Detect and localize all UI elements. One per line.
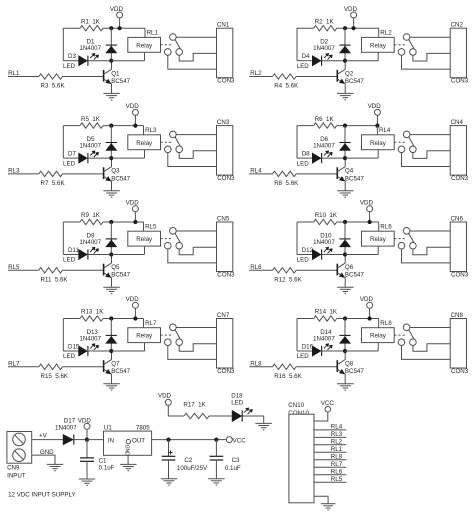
svg-text:RL7: RL7	[145, 320, 157, 327]
wire top rail	[63, 318, 80, 320]
svg-text:RL2: RL2	[331, 439, 343, 446]
svg-text:R3 5.6K: R3 5.6K	[41, 83, 66, 90]
relay coil RL1	[128, 37, 161, 52]
svg-text:1N4007: 1N4007	[313, 239, 335, 246]
svg-text:Relay: Relay	[136, 42, 153, 49]
svg-text:12 VDC INPUT SUPPLY: 12 VDC INPUT SUPPLY	[8, 492, 76, 499]
relay contact NC	[165, 339, 172, 346]
svg-text:D12: D12	[302, 247, 314, 254]
resistor R4 5.6K	[273, 74, 297, 79]
svg-text:LED: LED	[231, 399, 244, 406]
svg-text:Q8: Q8	[345, 361, 354, 368]
svg-text:100uF/25V: 100uF/25V	[177, 465, 208, 472]
node VCC output	[226, 437, 232, 443]
svg-text:BC547: BC547	[111, 272, 130, 279]
svg-text:R11 5.6K: R11 5.6K	[41, 277, 69, 284]
wire common to connector	[176, 327, 216, 329]
svg-text:RL5: RL5	[331, 476, 343, 483]
wire NC to connector	[168, 249, 217, 263]
resistor R10 1K	[314, 219, 337, 224]
svg-text:1N4007: 1N4007	[313, 45, 335, 52]
wire NO to connector	[179, 344, 216, 352]
relay contacts common	[170, 324, 177, 331]
ground	[103, 286, 120, 288]
wire NO to connector	[179, 151, 216, 159]
node RL7 pin wire	[314, 466, 346, 468]
svg-text:1N4007: 1N4007	[313, 335, 335, 342]
wire common to connector	[410, 327, 450, 329]
relay coil RL4	[362, 135, 395, 150]
svg-text:D3: D3	[68, 53, 76, 60]
svg-text:R15 5.6K: R15 5.6K	[41, 373, 69, 380]
svg-text:CON3: CON3	[451, 78, 469, 85]
junction VDD tap	[375, 124, 379, 128]
svg-text:C3: C3	[232, 457, 240, 464]
svg-text:IN: IN	[108, 438, 114, 445]
wire relay feed	[378, 319, 380, 328]
svg-text:1N4007: 1N4007	[79, 45, 101, 52]
contact blade	[409, 330, 414, 339]
svg-text:0.1uF: 0.1uF	[225, 465, 241, 472]
svg-text:Q2: Q2	[345, 70, 354, 77]
svg-text:LED: LED	[63, 160, 76, 167]
svg-text:LED: LED	[63, 353, 76, 360]
junction VDD tap	[133, 220, 137, 224]
relay contact NC	[165, 146, 172, 153]
resistor R5 1K	[80, 123, 103, 128]
resistor R7 5.6K	[39, 171, 63, 176]
LED D16	[297, 350, 312, 352]
relay coil RL8	[362, 328, 395, 343]
resistor R6 1K	[314, 123, 337, 128]
svg-text:RL8: RL8	[331, 454, 343, 461]
ground	[208, 478, 225, 480]
wire NO to connector	[413, 344, 450, 352]
junction diode branch	[343, 220, 347, 224]
wire NC to connector	[402, 249, 451, 263]
svg-text:R2 1K: R2 1K	[315, 18, 335, 25]
svg-text:VCC: VCC	[233, 438, 247, 445]
svg-text:D17: D17	[64, 418, 76, 425]
resistor R13 1K	[80, 316, 103, 321]
svg-text:R16 5.6K: R16 5.6K	[274, 373, 302, 380]
svg-text:OUT: OUT	[132, 438, 145, 445]
svg-text:Relay: Relay	[136, 236, 153, 243]
svg-text:R6 1K: R6 1K	[315, 116, 335, 123]
svg-text:D15: D15	[68, 343, 80, 350]
svg-text:CN6: CN6	[451, 216, 464, 223]
svg-text:1N4007: 1N4007	[79, 335, 101, 342]
node RL6 pin wire	[314, 474, 346, 476]
svg-text:D11: D11	[68, 247, 79, 254]
LED D3	[63, 60, 78, 62]
resistor R11 5.6K	[39, 268, 63, 273]
ground	[337, 383, 354, 385]
svg-text:CN10: CN10	[288, 402, 304, 409]
svg-text:CON3: CON3	[217, 271, 235, 278]
wire NO to connector	[413, 151, 450, 159]
relay actuation dashed link	[394, 44, 405, 46]
svg-text:LED: LED	[297, 257, 310, 264]
svg-text:GND: GND	[124, 445, 130, 457]
svg-text:BC547: BC547	[111, 175, 130, 182]
wire common to connector	[410, 36, 450, 38]
junction diode branch	[343, 316, 347, 320]
wire NO to connector	[413, 53, 450, 61]
ground	[79, 478, 95, 480]
svg-text:R9 1K: R9 1K	[81, 212, 101, 219]
svg-text:CON3: CON3	[217, 175, 235, 182]
node RL5 pin wire	[314, 481, 346, 483]
wire NC to connector	[402, 346, 451, 360]
svg-text:Q3: Q3	[111, 168, 120, 175]
svg-text:RL1: RL1	[147, 30, 159, 37]
diode D2 1N4007 flyback	[344, 28, 346, 61]
relay actuation dashed link	[394, 238, 405, 240]
svg-text:VDD: VDD	[126, 200, 140, 207]
svg-text:VDD: VDD	[78, 418, 92, 425]
svg-text:RL5: RL5	[145, 223, 157, 230]
relay contact NO	[176, 146, 183, 153]
svg-text:RL6: RL6	[380, 223, 392, 230]
wire VCC rail	[152, 439, 227, 441]
wire common to connector	[176, 134, 216, 136]
relay contact NO	[410, 339, 417, 346]
svg-text:7805: 7805	[136, 425, 150, 432]
relay contact NC	[398, 146, 405, 153]
svg-text:VDD: VDD	[368, 103, 382, 110]
svg-text:RL4: RL4	[379, 127, 391, 134]
wire CN10 ground	[314, 496, 328, 503]
transistor Q4 BC547	[336, 167, 338, 179]
ground	[103, 383, 120, 385]
diode D14 1N4007 flyback	[344, 319, 346, 352]
ground	[120, 463, 137, 465]
svg-text:VDD: VDD	[126, 296, 140, 303]
resistor R8 5.6K	[273, 171, 297, 176]
svg-text:Q6: Q6	[345, 264, 354, 271]
svg-text:LED: LED	[63, 257, 76, 264]
wire base	[62, 269, 104, 271]
transistor Q1 BC547	[103, 70, 105, 82]
wire NO to connector	[413, 247, 450, 255]
wire relay bottom	[144, 150, 146, 158]
svg-text:Q5: Q5	[111, 264, 120, 271]
relay contacts common	[403, 324, 410, 331]
svg-text:BC547: BC547	[111, 368, 130, 375]
svg-text:VDD: VDD	[344, 6, 358, 13]
relay contact NO	[410, 242, 417, 249]
transistor Q8 BC547	[336, 360, 338, 372]
wire left rail	[62, 126, 64, 159]
connector CN9 screw terminal	[7, 432, 32, 464]
contact blade	[175, 40, 180, 49]
transistor Q6 BC547	[336, 264, 338, 276]
wire NC to connector	[402, 153, 451, 167]
resistor R12 5.6K	[273, 268, 297, 273]
node RL1 pin wire	[314, 451, 346, 453]
svg-text:R7 5.6K: R7 5.6K	[41, 180, 66, 187]
svg-text:R1 1K: R1 1K	[81, 18, 101, 25]
wire relay bottom	[144, 343, 146, 351]
svg-text:1N4007: 1N4007	[79, 239, 101, 246]
node RL3 pin wire	[314, 436, 346, 438]
ground	[337, 190, 354, 192]
wire base	[62, 76, 104, 78]
wire common to connector	[176, 36, 216, 38]
junction VDD tap	[368, 316, 372, 320]
transistor Q2 BC547	[336, 70, 338, 82]
relay contact NC	[398, 242, 405, 249]
svg-text:INPUT: INPUT	[7, 473, 26, 480]
junction	[166, 438, 170, 442]
relay contact NO	[176, 339, 183, 346]
relay actuation dashed link	[161, 44, 172, 46]
relay contacts common	[403, 228, 410, 235]
junction diode branch	[109, 316, 113, 320]
resistor R16 5.6K	[273, 364, 297, 369]
svg-text:VCC: VCC	[321, 400, 335, 407]
wire U1 ground pin	[127, 455, 129, 464]
svg-text:Q1: Q1	[111, 70, 120, 77]
junction diode branch	[109, 26, 113, 30]
svg-text:CN8: CN8	[451, 312, 464, 319]
svg-text:RL3: RL3	[331, 431, 343, 438]
svg-text:C2: C2	[184, 457, 192, 464]
wire common to connector	[176, 230, 216, 232]
diode D9 1N4007 flyback	[110, 222, 112, 255]
relay contacts common	[403, 34, 410, 41]
wire relay bottom	[377, 150, 379, 158]
svg-text:RL4: RL4	[331, 424, 343, 431]
ground	[103, 92, 120, 94]
svg-text:R14 1K: R14 1K	[315, 309, 338, 316]
capacitor C3 0.1uF	[215, 440, 217, 457]
svg-text:Relay: Relay	[136, 333, 153, 340]
svg-text:D16: D16	[302, 343, 314, 350]
capacitor C1 0.1uF	[86, 440, 88, 458]
wire relay feed	[376, 126, 378, 135]
wire relay feed	[378, 28, 380, 37]
LED D12	[297, 254, 312, 256]
resistor R1 1K	[80, 26, 103, 31]
ground	[103, 190, 120, 192]
diode D5 1N4007 flyback	[110, 126, 112, 159]
transistor Q3 BC547	[103, 167, 105, 179]
svg-text:R13 1K: R13 1K	[81, 309, 104, 316]
svg-text:LED: LED	[297, 353, 310, 360]
contact blade	[175, 137, 180, 146]
ground	[47, 463, 63, 465]
diode D6 1N4007 flyback	[344, 126, 346, 159]
relay contact NC	[398, 339, 405, 346]
wire base	[296, 173, 338, 175]
svg-text:VDD: VDD	[360, 200, 374, 207]
wire left rail	[296, 222, 298, 255]
svg-text:CON3: CON3	[451, 175, 469, 182]
resistor R3 5.6K	[39, 74, 63, 79]
wire top rail	[63, 221, 80, 223]
svg-text:Relay: Relay	[136, 140, 153, 147]
relay contacts common	[403, 131, 410, 138]
wire NC to connector	[402, 55, 451, 69]
relay contact NC	[165, 49, 172, 56]
svg-text:LED: LED	[297, 160, 310, 167]
wire common to connector	[410, 134, 450, 136]
LED D7	[63, 157, 78, 159]
LED D11	[63, 254, 78, 256]
junction VDD tap	[133, 316, 137, 320]
svg-text:CN5: CN5	[217, 216, 230, 223]
wire left rail	[62, 28, 64, 61]
svg-text:RL1: RL1	[331, 446, 343, 453]
relay contact NC	[398, 49, 405, 56]
svg-text:BC547: BC547	[345, 78, 364, 85]
wire left rail	[62, 319, 64, 352]
svg-text:VDD: VDD	[110, 6, 124, 13]
resistor R15 5.6K	[39, 364, 63, 369]
svg-text:Relay: Relay	[370, 140, 387, 147]
wire relay bottom	[144, 52, 146, 60]
diode D10 1N4007 flyback	[344, 222, 346, 255]
svg-text:R8 5.6K: R8 5.6K	[274, 180, 299, 187]
relay actuation dashed link	[161, 334, 172, 336]
svg-text:BC547: BC547	[345, 368, 364, 375]
wire relay feed	[378, 222, 380, 231]
wire relay bottom	[377, 343, 379, 351]
svg-text:0.1uF: 0.1uF	[99, 465, 115, 472]
relay contact NC	[165, 242, 172, 249]
junction VDD tap	[133, 124, 137, 128]
contact blade	[409, 233, 414, 242]
svg-text:Q4: Q4	[345, 168, 354, 175]
wire top rail	[297, 27, 314, 29]
svg-text:LED: LED	[297, 63, 310, 70]
svg-text:BC547: BC547	[345, 272, 364, 279]
svg-text:C1: C1	[99, 457, 107, 464]
wire NC to connector	[168, 153, 217, 167]
wire top rail	[297, 318, 314, 320]
relay actuation dashed link	[161, 238, 172, 240]
relay coil RL6	[362, 231, 395, 246]
svg-text:1N4007: 1N4007	[55, 425, 77, 432]
wire relay feed	[143, 126, 145, 135]
svg-text:R4 5.6K: R4 5.6K	[274, 83, 299, 90]
diode D13 1N4007 flyback	[110, 319, 112, 352]
svg-text:R10 1K: R10 1K	[315, 212, 338, 219]
wire left rail	[296, 28, 298, 61]
contact blade	[409, 137, 414, 146]
wire top rail	[63, 27, 80, 29]
svg-text:CN1: CN1	[217, 22, 230, 29]
wire left rail	[296, 319, 298, 352]
svg-text:CON3: CON3	[451, 271, 469, 278]
svg-text:D8: D8	[302, 150, 310, 157]
svg-text:CON3: CON3	[217, 78, 235, 85]
node RL2 pin wire	[314, 444, 346, 446]
relay actuation dashed link	[161, 141, 172, 143]
svg-text:VDD: VDD	[126, 103, 140, 110]
resistor R2 1K	[314, 26, 337, 31]
svg-text:1N4007: 1N4007	[313, 143, 335, 150]
ground	[337, 92, 354, 94]
relay coil RL5	[128, 231, 161, 246]
svg-text:BC547: BC547	[345, 175, 364, 182]
junction diode branch	[109, 124, 113, 128]
wire relay feed	[143, 319, 145, 328]
wire relay bottom	[144, 246, 146, 254]
junction VDD tap	[118, 26, 122, 30]
wire base	[62, 366, 104, 368]
LED D8	[297, 157, 312, 159]
junction diode branch	[109, 220, 113, 224]
svg-text:Relay: Relay	[370, 42, 387, 49]
wire relay feed	[143, 222, 145, 231]
junction VDD tap	[368, 220, 372, 224]
svg-text:1N4007: 1N4007	[79, 143, 101, 150]
wire relay bottom	[377, 52, 379, 60]
svg-text:VDD: VDD	[158, 393, 172, 400]
svg-text:VDD: VDD	[360, 296, 374, 303]
contact blade	[175, 330, 180, 339]
wire NO to connector	[179, 247, 216, 255]
svg-text:CN9: CN9	[7, 465, 20, 472]
wire base	[296, 76, 338, 78]
junction diode branch	[343, 124, 347, 128]
wire relay feed	[144, 28, 146, 37]
ground	[255, 422, 272, 424]
wire base	[296, 269, 338, 271]
wire NC to connector	[168, 55, 217, 69]
wire base	[296, 366, 338, 368]
svg-text:R17 1K: R17 1K	[183, 401, 206, 408]
svg-text:CN4: CN4	[451, 119, 464, 126]
wire top rail	[297, 125, 314, 127]
wire NC to connector	[168, 346, 217, 360]
LED D15	[63, 350, 78, 352]
svg-text:RL3: RL3	[145, 127, 157, 134]
relay coil RL2	[362, 37, 395, 52]
svg-text:LED: LED	[63, 63, 76, 70]
relay coil RL3	[128, 135, 161, 150]
svg-text:CN2: CN2	[451, 22, 464, 29]
svg-text:CN3: CN3	[217, 119, 230, 126]
svg-text:Relay: Relay	[370, 333, 387, 340]
relay contact NO	[410, 49, 417, 56]
relay actuation dashed link	[394, 334, 405, 336]
junction	[85, 438, 89, 442]
contact blade	[409, 40, 414, 49]
relay contact NO	[410, 146, 417, 153]
ground	[337, 286, 354, 288]
svg-text:RL2: RL2	[380, 30, 392, 37]
relay contacts common	[170, 34, 177, 41]
svg-text:D4: D4	[302, 53, 310, 60]
transistor Q7 BC547	[103, 360, 105, 372]
junction diode branch	[343, 26, 347, 30]
relay contact NO	[176, 242, 183, 249]
svg-text:CON3: CON3	[217, 368, 235, 375]
svg-text:R5 1K: R5 1K	[81, 116, 101, 123]
svg-text:R12 5.6K: R12 5.6K	[274, 277, 302, 284]
ground	[321, 503, 336, 505]
resistor R9 1K	[80, 219, 103, 224]
svg-text:CN7: CN7	[217, 312, 230, 319]
wire base	[62, 173, 104, 175]
wire left rail	[62, 222, 64, 255]
wire top rail	[297, 221, 314, 223]
node RL8 pin wire	[314, 459, 346, 461]
